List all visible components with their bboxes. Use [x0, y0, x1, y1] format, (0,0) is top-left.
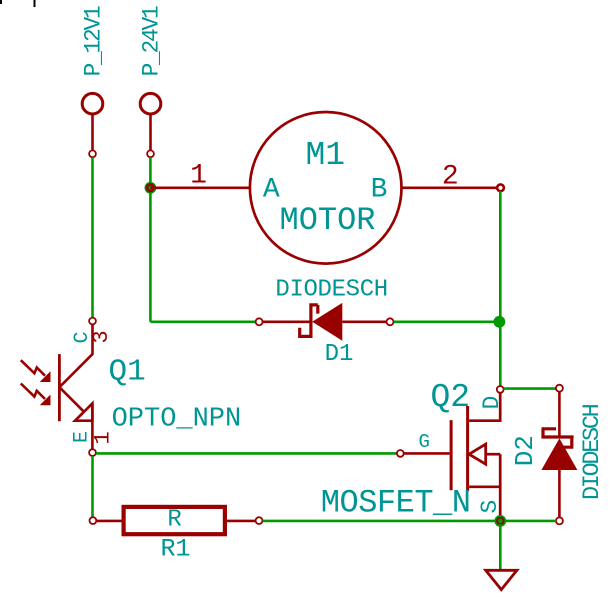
svg-text:OPTO_NPN: OPTO_NPN — [112, 404, 242, 434]
mosfet Q2 drain lead — [469, 393, 500, 421]
diode D2 cathode bar — [542, 429, 574, 447]
ground — [486, 570, 517, 589]
resistor R1 left lead — [96, 520, 123, 523]
optocoupler Q1 light arrow upper — [21, 360, 45, 376]
svg-text:1: 1 — [190, 161, 207, 192]
svg-text:M1: M1 — [305, 137, 345, 174]
svg-text:D: D — [479, 396, 505, 410]
connector P_24V1 pin end circle — [147, 150, 154, 157]
svg-text:2: 2 — [442, 161, 459, 192]
svg-text:P_24V1: P_24V1 — [139, 6, 165, 77]
node junction D1 right — [494, 316, 506, 328]
svg-text:D1: D1 — [325, 341, 354, 368]
optocoupler Q1 emitter pin circle — [89, 449, 96, 456]
mosfet Q2 channel bar — [466, 406, 469, 491]
svg-text:A: A — [263, 174, 280, 205]
diode D1 left pin circle — [256, 318, 263, 325]
svg-text:Q1: Q1 — [109, 355, 146, 390]
optocoupler Q1 emitter arrow — [75, 403, 92, 420]
svg-text:DIODESCH: DIODESCH — [275, 277, 387, 304]
motor M1 pin 2 wire — [402, 184, 504, 191]
diode D2 cathode lead — [558, 392, 561, 437]
svg-text:B: B — [371, 174, 388, 205]
diode D2 triangle — [541, 438, 577, 470]
diode D1 triangle — [312, 303, 342, 341]
wire mid rail — [149, 157, 152, 322]
node junction source — [494, 515, 506, 527]
optocoupler Q1 collector pin circle — [89, 318, 96, 325]
sheet border tick — [34, 0, 36, 7]
node junction motor A — [145, 182, 157, 194]
sheet border corner mark — [0, 0, 2, 4]
resistor R1 body — [124, 507, 225, 534]
optocoupler Q1 base bar — [58, 354, 61, 421]
mosfet Q2 source pin circle — [497, 518, 504, 525]
svg-text:DIODESCH: DIODESCH — [579, 404, 606, 500]
optocoupler Q1 light arrow lower — [21, 384, 45, 400]
motor M1 body — [250, 112, 402, 264]
resistor R1 left pin circle — [90, 517, 97, 524]
mosfet Q2 gate lead — [404, 452, 450, 455]
wire left rail top — [91, 157, 94, 317]
optocoupler Q1 emitter lead — [59, 387, 92, 449]
wire drain top — [504, 387, 556, 390]
wire D1 right to junction — [394, 320, 500, 323]
mosfet Q2 gate bar — [450, 420, 453, 490]
svg-text:P_12V1: P_12V1 — [80, 6, 106, 77]
mosfet Q2 body arrow — [469, 444, 486, 464]
resistor R1 right lead — [225, 520, 256, 523]
svg-text:MOTOR: MOTOR — [279, 202, 375, 239]
connector P_24V1 stub wire — [149, 115, 152, 151]
wire right rail — [499, 191, 502, 386]
svg-text:D2: D2 — [510, 435, 540, 466]
mosfet Q2 body link — [486, 453, 501, 456]
diode D2 top pin circle — [556, 385, 563, 392]
mosfet Q2 drain pin circle — [497, 386, 504, 393]
svg-text:MOSFET_N: MOSFET_N — [321, 485, 471, 522]
diode D2 anode lead — [558, 470, 561, 517]
svg-text:Q2: Q2 — [431, 379, 471, 416]
connector P_12V1 stub wire — [91, 115, 94, 151]
diode D1 right lead — [342, 320, 386, 323]
wire bottom row — [263, 520, 557, 523]
svg-text:G: G — [418, 431, 429, 453]
motor M1 pin 1 wire — [147, 185, 250, 192]
diode D1 right pin circle — [387, 318, 394, 325]
diode D1 cathode bar — [300, 305, 318, 337]
svg-text:R1: R1 — [160, 535, 190, 564]
wire left rail lower — [91, 456, 94, 517]
wire gate row — [96, 452, 397, 455]
connector P_24V1 pin circle — [140, 93, 161, 114]
diode D2 bottom pin circle — [556, 517, 563, 524]
wire mid rail to D1 — [150, 320, 255, 323]
svg-text:1: 1 — [91, 431, 116, 444]
wire to ground — [499, 524, 502, 570]
mosfet Q2 source vertical — [499, 454, 502, 517]
connector P_12V1 pin end circle — [89, 150, 96, 157]
connector P_12V1 pin circle — [82, 93, 103, 114]
mosfet Q2 source horizontal — [469, 485, 500, 488]
svg-text:S: S — [477, 500, 503, 514]
resistor R1 right pin circle — [256, 517, 263, 524]
svg-text:R: R — [167, 507, 181, 534]
optocoupler Q1 collector lead — [59, 324, 92, 387]
diode D1 left lead — [263, 320, 311, 323]
mosfet Q2 gate pin circle — [397, 450, 404, 457]
